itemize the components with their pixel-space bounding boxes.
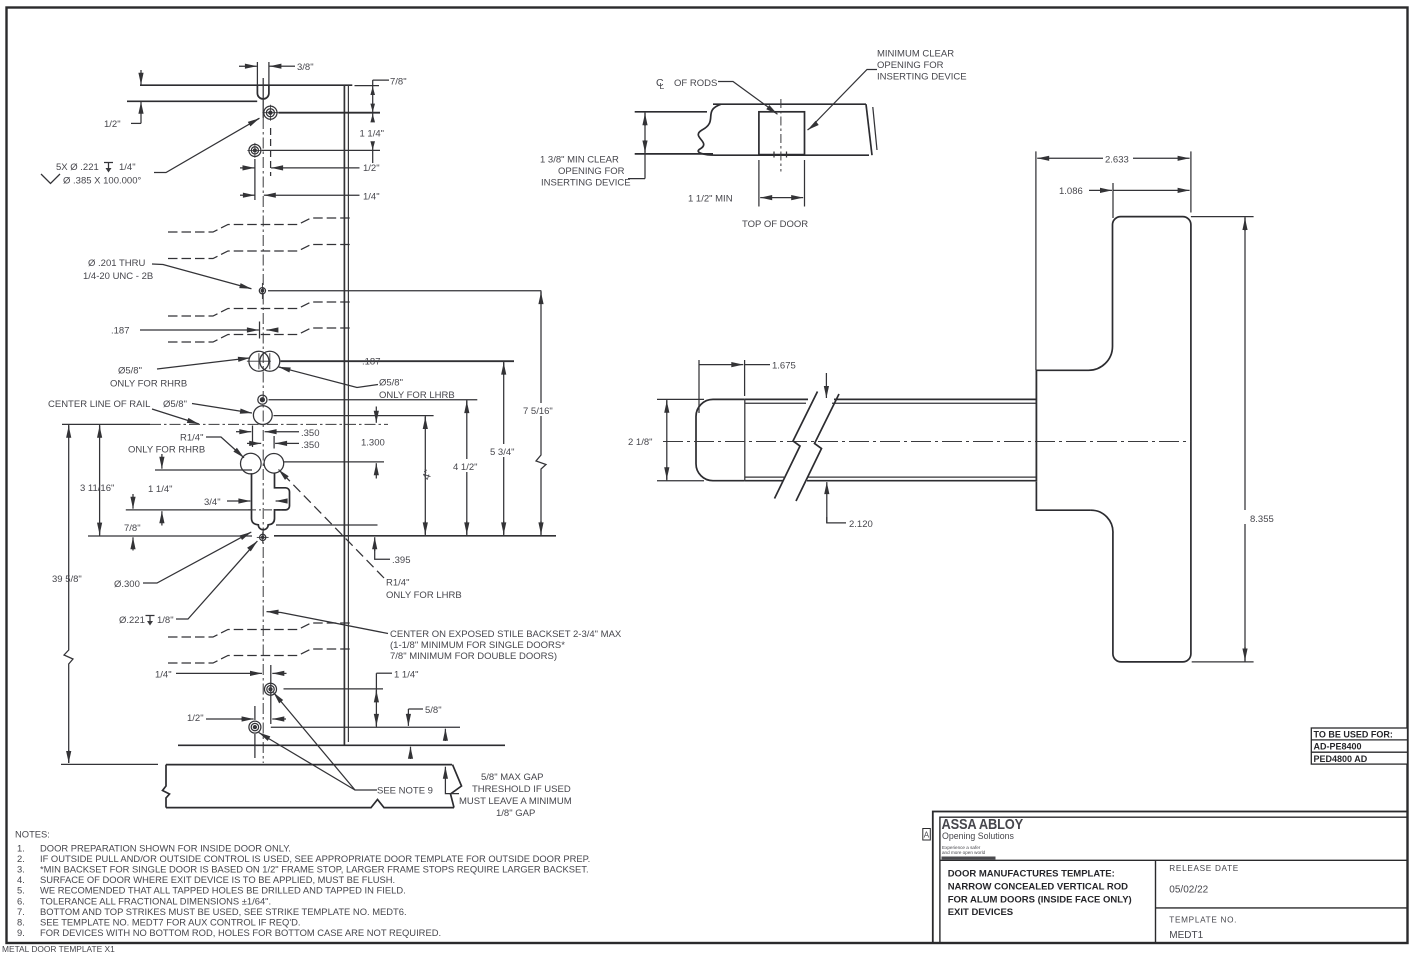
ext line 2.633 right (1190, 151, 1192, 212)
svg-text:Ø5/8": Ø5/8" (118, 366, 142, 377)
ext line hole H1 dashed vertical (270, 128, 272, 176)
lock slot profile (252, 473, 290, 529)
dimension 2 1/8 (666, 399, 668, 480)
break row 5 (168, 623, 350, 637)
ext line 1.086 left (1112, 183, 1114, 218)
svg-text:TOLERANCE ALL FRACTIONAL DIMEN: TOLERANCE ALL FRACTIONAL DIMENSIONS ±1/6… (40, 895, 271, 906)
row line hole B1 (284, 688, 384, 690)
break row 4 (168, 328, 350, 342)
svg-text:1/2": 1/2" (187, 713, 204, 724)
row line 1-1/4 top (155, 469, 252, 471)
svg-text:.187: .187 (111, 326, 130, 337)
rod top outer line (745, 398, 808, 400)
row line hole 201 (268, 290, 541, 292)
title block divider right horizontal (1156, 907, 1408, 909)
svg-text:2.: 2. (17, 853, 25, 864)
break row 1 (168, 218, 350, 232)
dimension 3/8 arrows (239, 65, 257, 67)
svg-text:R1/4": R1/4" (180, 433, 203, 444)
svg-text:5X Ø .221: 5X Ø .221 (56, 162, 99, 173)
svg-text:8.: 8. (17, 917, 25, 928)
notch centerline dashdot (248, 509, 282, 511)
svg-text:CENTER ON EXPOSED STILE BACKSE: CENTER ON EXPOSED STILE BACKSET 2-3/4" M… (390, 629, 622, 640)
row line hole H2 (262, 149, 380, 151)
dimension 1 3/8 line (644, 112, 646, 179)
title block divider horizontal (940, 859, 1408, 861)
svg-text:1/2": 1/2" (104, 119, 121, 130)
chassis edge vertical (1035, 370, 1037, 481)
svg-text:TEMPLATE NO.: TEMPLATE NO. (1169, 916, 1237, 925)
svg-text:OPENING FOR: OPENING FOR (558, 166, 625, 177)
door bar left piece top edge (635, 111, 707, 113)
svg-text:4.: 4. (17, 874, 25, 885)
dimension 1 1/4 bottom elbow (376, 672, 392, 674)
dimension 1.300 (375, 407, 377, 423)
leader dia .300 (143, 533, 250, 583)
svg-text:IF OUTSIDE PULL AND/OR OUTSIDE: IF OUTSIDE PULL AND/OR OUTSIDE CONTROL I… (40, 853, 590, 864)
leader R1/4 LHRB dashed (279, 470, 385, 579)
hole B1 bottom (265, 683, 277, 695)
svg-text:5 3/4": 5 3/4" (490, 447, 515, 458)
dimension 4 (424, 416, 426, 536)
row line hole H1 (279, 112, 381, 114)
svg-text:RELEASE DATE: RELEASE DATE (1169, 864, 1239, 873)
svg-text:FOR ALUM DOORS (INSIDE FACE ON: FOR ALUM DOORS (INSIDE FACE ONLY) (948, 895, 1132, 906)
dimension 39 5/8 (64, 424, 73, 763)
hole B2 bottom (249, 721, 261, 733)
svg-text:EXIT DEVICES: EXIT DEVICES (948, 907, 1013, 918)
row line lock circles (284, 461, 385, 463)
wavy break line (698, 104, 721, 155)
svg-text:7/8": 7/8" (390, 77, 407, 88)
door bar left piece bottom edge (635, 153, 713, 155)
dimension 3/8 ext lines (256, 62, 258, 85)
svg-text:1/4-20 UNC - 2B: 1/4-20 UNC - 2B (83, 271, 153, 282)
svg-text:05/02/22: 05/02/22 (1169, 885, 1208, 896)
svg-text:and more open world: and more open world (942, 850, 986, 855)
dimension 1 1/2 min (760, 197, 770, 199)
dimension .350 row2 (247, 442, 261, 444)
leader dia 5/8 LHRB (280, 367, 379, 387)
title block inner border (940, 817, 1408, 943)
svg-text:1.: 1. (17, 842, 25, 853)
ext lines below box (758, 160, 760, 207)
leader center line of rail (152, 409, 199, 424)
svg-text:1/4": 1/4" (155, 670, 172, 681)
svg-text:MUST LEAVE A MINIMUM: MUST LEAVE A MINIMUM (459, 796, 572, 807)
rod bottom outer line (745, 480, 783, 482)
dimension 1.675 (698, 360, 700, 413)
svg-text:TO BE USED FOR:: TO BE USED FOR: (1314, 730, 1393, 740)
svg-text:R1/4": R1/4" (386, 578, 409, 589)
box bottom ticks (773, 152, 775, 158)
svg-text:ONLY FOR RHRB: ONLY FOR RHRB (110, 379, 187, 390)
svg-text:1 1/4": 1 1/4" (394, 670, 419, 681)
leader 5X note (154, 119, 259, 173)
svg-text:MINIMUM CLEAR: MINIMUM CLEAR (877, 49, 954, 60)
rod centerline (663, 441, 1191, 443)
svg-text:OF RODS: OF RODS (674, 78, 717, 89)
svg-text:3 11/16": 3 11/16" (80, 483, 114, 494)
svg-text:1/4": 1/4" (363, 191, 380, 202)
svg-text:2.633: 2.633 (1105, 155, 1129, 166)
svg-text:FOR DEVICES WITH NO BOTTOM ROD: FOR DEVICES WITH NO BOTTOM ROD, HOLES FO… (40, 927, 441, 938)
leader dia .221 (176, 543, 256, 620)
svg-text:DOOR MANUFACTURES TEMPLATE:: DOOR MANUFACTURES TEMPLATE: (948, 869, 1115, 880)
break bolt 1 (775, 392, 818, 499)
ext line bottom hole1 vertical (270, 665, 272, 724)
svg-text:OPENING FOR: OPENING FOR (877, 60, 944, 71)
svg-text:BOTTOM AND TOP STRIKES MUST BE: BOTTOM AND TOP STRIKES MUST BE USED, SEE… (40, 906, 407, 917)
svg-text:8.355: 8.355 (1250, 514, 1274, 525)
dimension 7/8 left (132, 494, 134, 509)
svg-text:1 1/4": 1 1/4" (148, 484, 173, 495)
svg-text:ASSA ABLOY: ASSA ABLOY (942, 816, 1024, 832)
svg-text:MEDT1: MEDT1 (1169, 930, 1203, 941)
dimension 2.633 (1037, 157, 1103, 159)
svg-text:1/8": 1/8" (157, 615, 174, 626)
reference line bottom of rail right (274, 535, 556, 537)
svg-text:.187: .187 (362, 357, 381, 368)
dimension 5 3/4 (503, 361, 505, 536)
rod end cap (696, 399, 745, 480)
dimension 8.355 (1244, 217, 1246, 662)
tapped hole at rail (258, 395, 267, 404)
svg-text:1 3/8" MIN CLEAR: 1 3/8" MIN CLEAR (540, 155, 619, 166)
threshold box (166, 764, 452, 766)
to be used for box (1311, 728, 1407, 764)
svg-text:.350: .350 (301, 428, 320, 439)
upper shoulder with fillet (1036, 347, 1113, 371)
svg-text:Ø.300: Ø.300 (114, 579, 140, 590)
cap junction line (744, 399, 746, 480)
svg-text:SEE TEMPLATE NO. MEDT7 FOR AUX: SEE TEMPLATE NO. MEDT7 FOR AUX CONTROL I… (40, 917, 301, 928)
svg-text:SURFACE OF DOOR WHERE EXIT DEV: SURFACE OF DOOR WHERE EXIT DEVICE IS TO … (40, 874, 395, 885)
hole 201 tapped (259, 283, 265, 299)
dimension 5/8 bottom elbow (408, 708, 423, 710)
svg-text:1/8" GAP: 1/8" GAP (496, 808, 535, 819)
svg-text:Ø .201 THRU: Ø .201 THRU (88, 258, 146, 269)
dimension 3 11/16 (99, 424, 101, 536)
circle 5/8 above rail CL (253, 406, 272, 425)
svg-text:1/2": 1/2" (363, 163, 380, 174)
circle pair lock RHRB lobe (241, 453, 262, 474)
svg-text:PED4800 AD: PED4800 AD (1314, 754, 1368, 764)
circle pair lock LHRB lobe (264, 454, 284, 474)
row line hole B2 (271, 726, 460, 728)
svg-text:Ø5/8": Ø5/8" (163, 399, 187, 410)
hole H1 top countersunk (262, 105, 278, 121)
row line circle 5/8 (274, 415, 434, 417)
svg-text:1 1/4": 1 1/4" (360, 129, 385, 140)
svg-text:NARROW CONCEALED VERTICAL ROD: NARROW CONCEALED VERTICAL ROD (948, 882, 1128, 893)
lower shoulder (1036, 482, 1091, 511)
door bar right piece top edge (713, 103, 866, 105)
svg-text:7/8": 7/8" (124, 523, 141, 534)
svg-text:ONLY FOR LHRB: ONLY FOR LHRB (386, 590, 462, 601)
reference line bottom of rail left (88, 535, 252, 537)
dimension .350 row1 (236, 431, 251, 433)
door bar right piece bottom edge (717, 154, 869, 156)
svg-text:3/8": 3/8" (297, 62, 314, 73)
break row 2 (168, 245, 350, 259)
svg-text:2.120: 2.120 (849, 519, 873, 530)
leader dia 5/8 RHRB (157, 358, 250, 369)
door right end slant edges (866, 104, 872, 155)
svg-text:WE RECOMENDED THAT ALL TAPPED: WE RECOMENDED THAT ALL TAPPED HOLES BE D… (40, 885, 406, 896)
break row 6 (168, 649, 350, 663)
svg-text:SEE NOTE 9: SEE NOTE 9 (377, 786, 433, 797)
svg-text:THRESHOLD IF USED: THRESHOLD IF USED (472, 784, 571, 795)
svg-text:3/4": 3/4" (204, 497, 221, 508)
svg-text:DOOR PREPARATION SHOWN FOR INS: DOOR PREPARATION SHOWN FOR INSIDE DOOR O… (40, 842, 291, 853)
rod slot at top (257, 85, 269, 99)
T bar outline (1091, 217, 1191, 662)
dimension .395 (374, 537, 376, 551)
rod centerline vertical (262, 78, 264, 118)
svg-text:TOP OF DOOR: TOP OF DOOR (742, 219, 808, 230)
leader hole 201 (152, 264, 251, 289)
svg-text:1 1/2" MIN: 1 1/2" MIN (688, 194, 733, 205)
svg-text:1/4": 1/4" (119, 162, 136, 173)
svg-text:1.086: 1.086 (1059, 186, 1083, 197)
min clear opening box (759, 112, 805, 155)
revision letter box (923, 829, 931, 841)
arrow at door bottom (410, 747, 412, 759)
svg-text:Ø.221: Ø.221 (119, 615, 145, 626)
leader center on exposed stile (270, 612, 388, 634)
leader R1/4 RHRB (206, 437, 241, 455)
center line of rail horizontal (62, 423, 150, 425)
dimension 2 1/8 ext lines (657, 398, 704, 400)
svg-text:5.: 5. (17, 885, 25, 896)
title block divider vertical (1155, 860, 1157, 943)
svg-text:7.: 7. (17, 906, 25, 917)
svg-text:L: L (660, 81, 665, 91)
rod bottom inner line (745, 476, 784, 478)
svg-text:1.675: 1.675 (772, 361, 796, 372)
leader CL of rods (718, 82, 776, 113)
leader 5/8 circle (192, 404, 252, 414)
svg-text:3.: 3. (17, 864, 25, 875)
svg-text:Ø5/8": Ø5/8" (379, 378, 403, 389)
svg-text:*MIN BACKSET FOR SINGLE DOOR I: *MIN BACKSET FOR SINGLE DOOR IS BASED ON… (40, 864, 589, 875)
svg-text:6.: 6. (17, 895, 25, 906)
leader minimum clear opening (811, 70, 877, 128)
title block outer border (933, 812, 1408, 944)
reference line .395 upper (276, 524, 378, 526)
dimension 3/4 arrows (227, 500, 250, 502)
see note 9 leaders (276, 696, 377, 791)
threshold top ext line (61, 763, 158, 765)
hole H2 top countersunk (247, 143, 262, 158)
dimension 7 5/16 (536, 291, 546, 536)
svg-text:39 5/8": 39 5/8" (52, 574, 82, 585)
dimension 8.355 ticks (1191, 216, 1254, 218)
svg-text:5/8" MAX GAP: 5/8" MAX GAP (481, 772, 544, 783)
door top edge line (140, 84, 352, 86)
svg-text:.350: .350 (301, 440, 320, 451)
break row 3 (168, 302, 350, 316)
leader 1 3/8 (628, 178, 645, 180)
dimension 1/2 top-left arrows (140, 70, 142, 85)
svg-text:4 1/2": 4 1/2" (453, 462, 478, 473)
row line 1-1/4 bottom (126, 509, 252, 511)
svg-text:NOTES:: NOTES: (15, 829, 50, 840)
arrow at ext line 727 (444, 729, 446, 741)
svg-text:METAL DOOR TEMPLATE X1: METAL DOOR TEMPLATE X1 (2, 944, 115, 954)
dimension .187 left line and arrows (140, 329, 252, 331)
rod top inner line (745, 402, 806, 404)
break bolt 2 (796, 394, 839, 501)
row line .187 rail (281, 360, 515, 362)
circle pair top of rail LHRB (260, 351, 280, 371)
svg-text:ONLY FOR RHRB: ONLY FOR RHRB (128, 445, 205, 456)
dimension 4 1/2 (466, 400, 468, 536)
rods centerline (780, 99, 782, 172)
svg-text:1.300: 1.300 (361, 438, 385, 449)
row line tapped hole (269, 399, 478, 401)
svg-text:9.: 9. (17, 927, 25, 938)
door stile double line (343, 85, 345, 745)
svg-text:AD-PE8400: AD-PE8400 (1314, 742, 1362, 752)
svg-text:2 1/8": 2 1/8" (628, 437, 653, 448)
svg-text:Ø .385 X 100.000°: Ø .385 X 100.000° (63, 176, 141, 187)
svg-text:7/8" MINIMUM FOR DOUBLE DOORS: 7/8" MINIMUM FOR DOUBLE DOORS) (390, 651, 557, 662)
dimension 5/8 max gap bracket (444, 767, 446, 779)
svg-text:A: A (924, 831, 930, 840)
door bottom line (178, 744, 505, 746)
dimension 1 1/4 left (161, 454, 163, 469)
device mounting face line (1035, 151, 1037, 370)
svg-text:INSERTING DEVICE: INSERTING DEVICE (541, 178, 631, 189)
svg-text:Opening Solutions: Opening Solutions (942, 831, 1014, 841)
ext line hole H2 vertical (254, 159, 256, 200)
svg-text:.395: .395 (392, 555, 411, 566)
dimension 1/4 row arrows (240, 194, 255, 196)
small hole below lock slot (257, 532, 269, 544)
door top shoulder line (127, 100, 257, 102)
dimension 7/8 elbow and chain line (373, 79, 389, 81)
circle pair top of rail RHRB (247, 351, 271, 371)
svg-text:7 5/16": 7 5/16" (523, 406, 553, 417)
svg-text:(1-1/8" MINIMUM FOR SINGLE DOO: (1-1/8" MINIMUM FOR SINGLE DOORS* (390, 640, 565, 651)
svg-text:CENTER LINE OF RAIL: CENTER LINE OF RAIL (48, 399, 150, 410)
dimension 1/2 row arrows (240, 167, 255, 169)
dimension 2.120 (825, 373, 827, 398)
svg-text:INSERTING DEVICE: INSERTING DEVICE (877, 72, 967, 83)
svg-text:5/8": 5/8" (425, 705, 442, 716)
